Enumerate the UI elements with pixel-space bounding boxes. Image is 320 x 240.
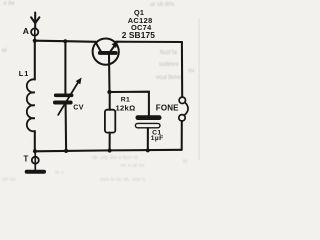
terminal T circle [32, 157, 39, 164]
wire: CV branch top [64, 41, 66, 93]
FONE jack arc [185, 102, 188, 115]
ghost bleed-through texture [2, 1, 194, 81]
wire: L1 bottom to bottom rail [34, 131, 36, 151]
svg-text:nn ov: nn ov [2, 177, 16, 183]
Q1 collector diagonal [95, 42, 101, 52]
svg-text:2 SB175: 2 SB175 [122, 30, 156, 40]
FONE jack lower circle [179, 115, 185, 121]
svg-text:nvo lu ta vb, unv o: nvo lu ta vb, unv o [100, 177, 145, 183]
CV arrow [58, 78, 81, 115]
svg-text:su: su [188, 68, 194, 74]
Q1 base lead down [108, 55, 111, 92]
svg-text:ie v: ie v [55, 170, 64, 176]
node: R1 bottom junction [108, 148, 112, 152]
resistor R1 [105, 110, 115, 133]
wire: base junction to C1 branch [110, 92, 149, 116]
svg-text:FONE: FONE [156, 104, 179, 113]
C1 bottom lead [147, 128, 149, 150]
svg-text:sb .uq ,ba a bcn sl.: sb .uq ,ba a bcn sl. [92, 155, 139, 161]
svg-text:A: A [23, 26, 29, 36]
node: CV top junction [63, 39, 67, 43]
svg-text:L1: L1 [19, 69, 29, 78]
R1 leads [109, 92, 111, 110]
capacitor C1 top plate [136, 115, 162, 120]
svg-text:nn s ut vo: nn s ut vo [120, 163, 144, 169]
node: top-left junction [33, 39, 37, 43]
svg-text:el: el [2, 48, 7, 54]
Q1 base bar [98, 51, 118, 55]
node: bottom-left junction [33, 149, 37, 153]
terminal A circle [31, 28, 38, 35]
svg-text:1µF: 1µF [151, 135, 164, 142]
ground bar [25, 170, 46, 174]
svg-text:soilinvv: soilinvv [159, 62, 179, 68]
svg-text:T: T [24, 155, 29, 164]
svg-text:CV: CV [73, 105, 84, 112]
variable capacitor CV top plate [54, 94, 74, 98]
svg-text:R1: R1 [121, 96, 131, 103]
antenna arrow [31, 13, 39, 29]
wire: bottom rail [35, 150, 182, 152]
wire: CV bottom to bottom rail [65, 105, 68, 151]
wire: emitter to right rail [116, 41, 182, 43]
Q1 emitter with arrow [110, 41, 119, 52]
faint page-edge bleed line [198, 18, 200, 160]
wire: FONE to bottom rail [181, 121, 183, 150]
wire: junction to T terminal [34, 151, 36, 170]
svg-text:ur sb ilrts: ur sb ilrts [150, 2, 174, 8]
node: CV bottom junction [64, 149, 68, 153]
svg-text:vcul bvno: vcul bvno [156, 75, 182, 81]
svg-text:.v ite: .v ite [2, 1, 15, 7]
transistor Q1 circle [93, 39, 119, 65]
wire: right rail down to FONE [181, 42, 183, 97]
wire: left rail down to L1 [34, 41, 36, 80]
paper background [0, 0, 217, 183]
capacitor C1 bottom plate (hollow) [135, 123, 160, 127]
svg-text:12kΩ: 12kΩ [116, 103, 136, 112]
wire: top rail left (to Q1 collector) [35, 41, 96, 42]
node: C1 bottom junction [146, 148, 150, 152]
svg-text:lluzr'la: lluzr'la [160, 50, 177, 56]
svg-text:kt: kt [183, 159, 188, 165]
node: base junction [107, 90, 111, 94]
inductor L1 [27, 79, 35, 131]
FONE jack upper circle [179, 97, 185, 103]
variable capacitor CV bottom plate [53, 101, 73, 105]
